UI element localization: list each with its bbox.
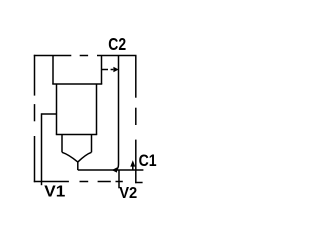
valve sleeve bottom edge	[56, 134, 97, 136]
C1 arrow stem	[132, 165, 134, 170]
poppet tip stem	[77, 161, 79, 170]
svg-text:C2: C2	[108, 34, 126, 54]
cavity bottom dash 2	[98, 181, 111, 183]
valve head bottom edge	[52, 83, 102, 85]
bottom right corner vertical	[135, 140, 137, 184]
C1 arrowhead (points up)	[130, 160, 135, 166]
poppet nose right side	[91, 135, 93, 153]
svg-text:V1: V1	[44, 184, 65, 201]
bottom right corner horizontal	[135, 182, 143, 184]
cavity left wall lower solid	[34, 136, 36, 182]
valve sleeve right side	[96, 84, 98, 135]
C2 arrowhead	[113, 67, 118, 73]
cavity top dash	[80, 55, 88, 57]
cavity bottom dash 1	[80, 181, 89, 183]
valve head right side	[101, 56, 103, 85]
step shoulder to V1	[42, 113, 57, 115]
C2 arrow dash	[111, 69, 114, 71]
svg-text:V2: V2	[119, 185, 137, 202]
V2 leader line	[118, 170, 120, 188]
valve head left side	[52, 56, 54, 85]
cavity bottom dash 3	[116, 181, 123, 183]
bottom edge solid left	[34, 181, 69, 183]
hook arrowhead (points left)	[112, 167, 118, 172]
V1 leader line	[41, 113, 43, 185]
valve body top edge	[34, 55, 72, 57]
valve cavity left wall (solid upper part)	[34, 55, 36, 96]
lower horizontal flow line	[78, 169, 144, 171]
C2 flow vertical with hook	[116, 56, 118, 170]
top right edge	[97, 55, 137, 57]
poppet nose left side	[61, 135, 63, 153]
valve sleeve left side	[56, 84, 58, 135]
poppet cone right	[78, 152, 92, 162]
right box right side (solid)	[135, 56, 137, 98]
cavity right wall dash	[135, 108, 137, 125]
svg-text:C1: C1	[139, 152, 157, 170]
C2 arrow stub	[102, 69, 108, 71]
cavity left wall dash	[34, 104, 36, 121]
poppet cone left	[62, 152, 78, 162]
